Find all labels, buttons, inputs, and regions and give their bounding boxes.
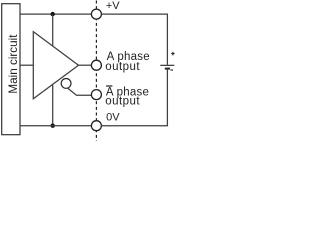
svg-text:output: output (105, 61, 140, 73)
terminal 0V (91, 121, 101, 131)
node junction bottom (51, 124, 55, 128)
wire op-amp positive supply (52, 14, 54, 46)
wire op-amp negative supply (52, 85, 54, 126)
terminal A-bar phase (91, 90, 101, 100)
battery negative plate (165, 68, 170, 70)
battery positive plate (160, 64, 174, 66)
terminal +V (91, 9, 101, 19)
main circuit box (2, 4, 20, 135)
terminal A phase (91, 60, 101, 70)
wire A phase output (78, 64, 92, 66)
battery plus sign (171, 53, 174, 55)
op-amp U1 (33, 32, 78, 99)
wire +V rail (20, 13, 91, 15)
wire input from main circuit (20, 64, 33, 66)
wire A-bar phase output (68, 88, 92, 95)
label A-bar phase output (106, 85, 112, 86)
wire 0V rail (20, 125, 91, 127)
node junction top (51, 12, 55, 16)
svg-text:0V: 0V (106, 112, 120, 124)
inversion bubble (61, 79, 71, 89)
battery minus sign (170, 69, 173, 71)
wire battery to 0V rail (101, 69, 167, 126)
connector boundary dashed line (95, 1, 97, 142)
wire +V to battery (101, 14, 167, 65)
svg-text:+V: +V (106, 0, 120, 12)
svg-text:Main circuit: Main circuit (7, 34, 20, 94)
svg-text:output: output (105, 95, 140, 107)
